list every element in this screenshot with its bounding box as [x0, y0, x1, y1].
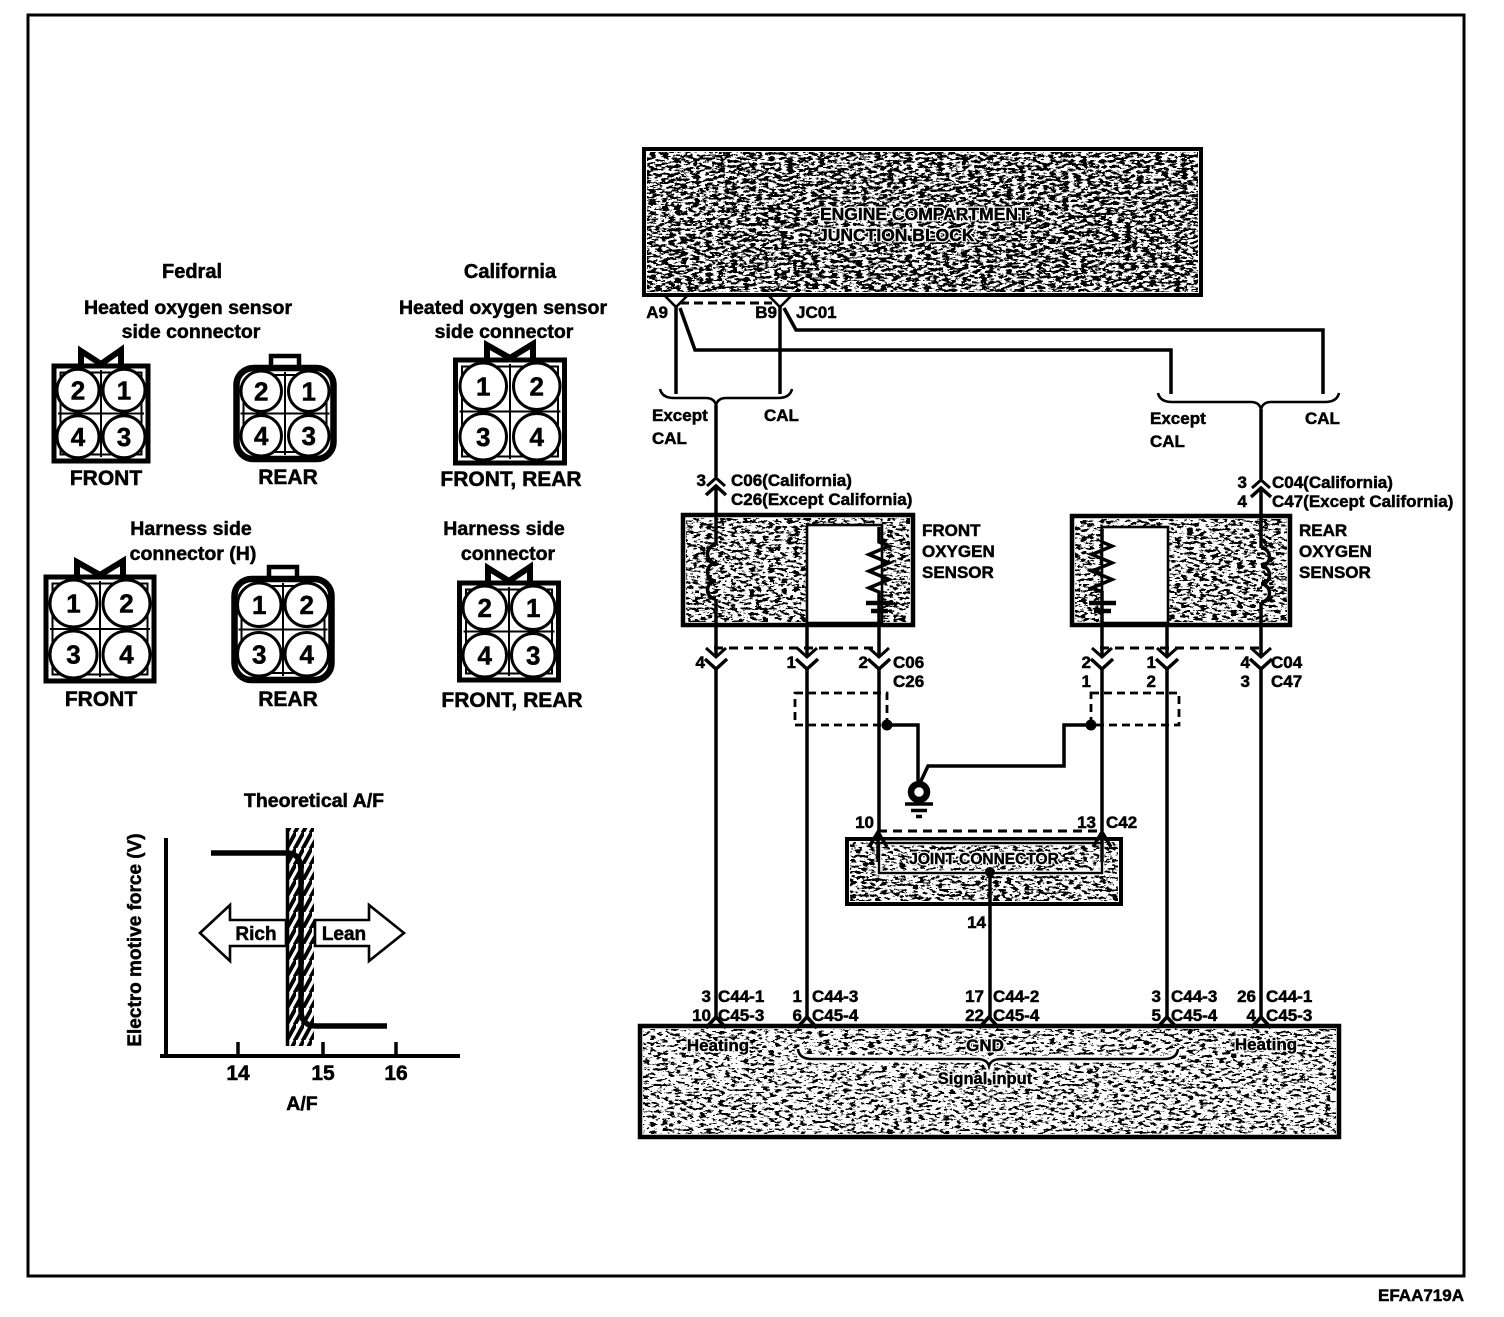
connector Fedral harness-side FRONT	[46, 561, 154, 681]
svg-text:4: 4	[478, 640, 493, 670]
svg-text:C44-1: C44-1	[718, 987, 764, 1006]
wire to front sensor pin 3	[714, 405, 718, 477]
wire A9 down	[674, 307, 678, 394]
svg-text:Theoretical A/F: Theoretical A/F	[244, 790, 384, 812]
inline connector C06/C26 pin 3	[707, 478, 725, 486]
dashed link A9-B9	[680, 302, 772, 305]
svg-text:17: 17	[965, 987, 984, 1006]
connector Fedral heated-O2-sensor-side FRONT	[54, 350, 148, 461]
svg-text:3: 3	[117, 422, 131, 452]
hatched band at stoichiometric A/F	[286, 828, 314, 1046]
graph x-axis	[160, 1054, 460, 1058]
svg-text:1: 1	[1082, 672, 1091, 691]
svg-text:3: 3	[1152, 987, 1161, 1006]
front sensing element resistor	[877, 527, 881, 538]
svg-text:C45-3: C45-3	[718, 1006, 764, 1025]
svg-text:4: 4	[300, 639, 315, 669]
terminal A9	[665, 296, 687, 307]
svg-text:3: 3	[1241, 672, 1250, 691]
rear element plates	[1089, 601, 1116, 606]
svg-text:FRONT, REAR: FRONT, REAR	[440, 468, 581, 491]
svg-text:2: 2	[119, 589, 133, 619]
svg-text:C44-1: C44-1	[1266, 987, 1312, 1006]
Lean arrow	[315, 905, 404, 961]
front oxygen sensor box	[683, 515, 913, 625]
wire front shield to ground	[887, 725, 919, 784]
svg-text:14: 14	[226, 1062, 250, 1085]
svg-text:1: 1	[117, 375, 131, 405]
svg-text:10: 10	[855, 813, 874, 832]
connector California heated-O2-sensor-side FRONT,REAR	[456, 344, 565, 463]
svg-text:3: 3	[476, 422, 490, 452]
svg-text:Heating: Heating	[1235, 1035, 1297, 1054]
rear oxygen sensor box	[1072, 516, 1290, 625]
svg-text:2: 2	[478, 593, 492, 623]
svg-text:California: California	[464, 261, 557, 283]
svg-text:OXYGEN: OXYGEN	[922, 542, 995, 561]
svg-text:1: 1	[793, 987, 802, 1006]
svg-text:CAL: CAL	[1305, 409, 1340, 428]
svg-text:C26(Except California): C26(Except California)	[731, 490, 912, 509]
joint connector box	[847, 839, 1121, 904]
rear pin 1/2	[1165, 623, 1169, 657]
svg-text:connector (H): connector (H)	[130, 543, 257, 565]
svg-text:4: 4	[1241, 653, 1251, 672]
inline connector C04/C47 pin 3/4	[1252, 480, 1270, 488]
svg-text:C47: C47	[1271, 672, 1302, 691]
merge bracket left (Except CAL / CAL)	[660, 389, 792, 405]
engine compartment junction block	[644, 149, 1201, 295]
svg-text:C45-4: C45-4	[1171, 1006, 1218, 1025]
svg-text:4: 4	[530, 422, 545, 452]
front heater coil	[714, 517, 718, 545]
svg-text:JOINT CONNECTOR: JOINT CONNECTOR	[909, 851, 1059, 868]
svg-text:4: 4	[119, 640, 134, 670]
svg-text:Fedral: Fedral	[162, 261, 222, 283]
ECU box	[640, 1026, 1339, 1137]
svg-text:side connector: side connector	[122, 321, 261, 343]
dashed connector row C42	[878, 830, 1101, 833]
svg-text:3: 3	[252, 639, 266, 669]
svg-text:C04(California): C04(California)	[1272, 473, 1393, 492]
connector Fedral heated-O2-sensor-side REAR	[237, 356, 334, 459]
rear sensing element resistor	[1100, 529, 1104, 538]
svg-text:10: 10	[692, 1006, 711, 1025]
svg-text:1: 1	[302, 376, 316, 406]
svg-text:CAL: CAL	[652, 429, 687, 448]
front sensor inner element box	[807, 525, 882, 623]
svg-text:C06: C06	[893, 653, 924, 672]
svg-text:C44-3: C44-3	[1171, 987, 1217, 1006]
svg-text:C26: C26	[893, 672, 924, 691]
svg-text:REAR: REAR	[1299, 521, 1347, 540]
front shield dashed box	[795, 693, 887, 725]
connector Fedral harness-side REAR	[235, 567, 332, 680]
ECU entry notch x=807	[797, 1017, 817, 1028]
front pin 2	[877, 625, 881, 657]
dashed connector row C04/C47	[1100, 647, 1262, 650]
ground symbol	[905, 784, 933, 817]
svg-text:side connector: side connector	[435, 321, 574, 343]
svg-text:4: 4	[71, 422, 86, 452]
svg-text:C45-4: C45-4	[993, 1006, 1040, 1025]
rear pin 2/1	[1100, 623, 1104, 657]
wire JC01 diagonal long run to CAL right	[784, 308, 1323, 394]
svg-text:Heated oxygen sensor: Heated oxygen sensor	[399, 297, 607, 319]
svg-text:13: 13	[1077, 813, 1096, 832]
front shield junction dot	[882, 720, 893, 731]
svg-text:1: 1	[476, 371, 490, 401]
rear sensor inner element box	[1102, 527, 1168, 623]
rear shield junction dot	[1086, 720, 1097, 731]
svg-text:FRONT, REAR: FRONT, REAR	[441, 689, 582, 712]
svg-text:Electro motive force (V): Electro motive force (V)	[125, 833, 146, 1046]
svg-text:CAL: CAL	[764, 406, 799, 425]
svg-text:1: 1	[1147, 653, 1156, 672]
ECU entry notch x=989	[979, 1017, 999, 1028]
svg-text:1: 1	[526, 593, 540, 623]
signal input brace	[798, 1049, 1178, 1066]
svg-text:4: 4	[1238, 492, 1248, 511]
svg-text:C44-2: C44-2	[993, 987, 1039, 1006]
svg-text:16: 16	[384, 1062, 407, 1085]
svg-text:Harness side: Harness side	[443, 518, 565, 540]
rear shield dashed box	[1091, 693, 1179, 725]
svg-text:C45-4: C45-4	[812, 1006, 859, 1025]
svg-text:4: 4	[696, 653, 706, 672]
svg-text:2: 2	[530, 371, 544, 401]
merge bracket right (Except CAL / CAL)	[1158, 393, 1339, 409]
terminal B9	[769, 296, 791, 307]
svg-text:3: 3	[66, 640, 80, 670]
rear pin 4/3	[1259, 625, 1263, 657]
svg-text:FRONT: FRONT	[65, 688, 137, 711]
joint connector pin 13 arrow	[1093, 832, 1111, 847]
svg-text:SENSOR: SENSOR	[922, 563, 994, 582]
svg-text:B9: B9	[755, 303, 777, 322]
wire A9 diagonal to rear run	[680, 308, 1171, 394]
dashed connector row C06/C26	[714, 647, 880, 650]
x tick 15	[321, 1042, 325, 1056]
svg-text:JC01: JC01	[796, 303, 837, 322]
svg-text:1: 1	[252, 590, 266, 620]
svg-text:C45-3: C45-3	[1266, 1006, 1312, 1025]
svg-text:3: 3	[302, 421, 316, 451]
svg-text:FRONT: FRONT	[922, 521, 981, 540]
svg-text:Except: Except	[1150, 409, 1206, 428]
joint connector pin 10 arrow	[869, 832, 887, 847]
joint connector pin 14 wire	[985, 867, 995, 877]
svg-text:OXYGEN: OXYGEN	[1299, 542, 1372, 561]
front pin 4	[714, 625, 718, 657]
svg-text:C47(Except California): C47(Except California)	[1272, 492, 1453, 511]
svg-text:REAR: REAR	[258, 688, 318, 711]
svg-text:ENGINE COMPARTMENT: ENGINE COMPARTMENT	[820, 204, 1029, 224]
svg-text:15: 15	[311, 1062, 335, 1085]
svg-text:connector: connector	[461, 543, 556, 565]
ECU entry notch x=1261	[1251, 1017, 1271, 1028]
svg-text:GND: GND	[966, 1036, 1004, 1055]
svg-text:5: 5	[1152, 1006, 1161, 1025]
svg-text:2: 2	[859, 653, 868, 672]
rear heater coil	[1259, 518, 1263, 548]
svg-text:4: 4	[254, 421, 269, 451]
svg-text:2: 2	[300, 590, 314, 620]
EMF curve	[211, 853, 387, 1026]
connector California harness-side FRONT,REAR	[460, 567, 559, 680]
svg-text:Lean: Lean	[322, 924, 366, 945]
wire to rear sensor pin 3/4	[1259, 409, 1263, 479]
svg-text:A/F: A/F	[286, 1093, 318, 1115]
svg-text:C04: C04	[1271, 653, 1303, 672]
svg-text:EFAA719A: EFAA719A	[1378, 1286, 1464, 1305]
wire B9 down	[778, 307, 782, 394]
Rich arrow	[200, 905, 286, 961]
x tick 16	[394, 1042, 398, 1056]
graph y-axis	[164, 838, 168, 1058]
front pin 1	[805, 623, 809, 657]
svg-text:1: 1	[787, 653, 796, 672]
svg-text:1: 1	[66, 589, 80, 619]
svg-text:3: 3	[702, 987, 711, 1006]
svg-text:Rich: Rich	[235, 924, 276, 945]
ECU entry notch x=1167	[1157, 1017, 1177, 1028]
svg-text:26: 26	[1237, 987, 1256, 1006]
svg-text:2: 2	[1147, 672, 1156, 691]
front element plates	[866, 601, 893, 606]
svg-text:2: 2	[254, 376, 268, 406]
svg-text:C44-3: C44-3	[812, 987, 858, 1006]
svg-text:2: 2	[71, 375, 85, 405]
ECU entry notch x=716	[706, 1017, 726, 1028]
svg-text:A9: A9	[646, 303, 668, 322]
svg-text:JUNCTION BLOCK: JUNCTION BLOCK	[818, 225, 975, 245]
svg-text:C06(California): C06(California)	[731, 471, 852, 490]
svg-text:CAL: CAL	[1150, 432, 1185, 451]
svg-text:Harness side: Harness side	[130, 518, 252, 540]
svg-text:REAR: REAR	[258, 466, 318, 489]
wire rear shield to ground	[920, 725, 1091, 783]
svg-text:Heating: Heating	[687, 1036, 749, 1055]
svg-text:Except: Except	[652, 406, 708, 425]
svg-text:C42: C42	[1106, 813, 1137, 832]
svg-text:Heated oxygen sensor: Heated oxygen sensor	[84, 297, 292, 319]
svg-text:Signal input: Signal input	[938, 1070, 1033, 1088]
svg-text:3: 3	[697, 471, 706, 490]
x tick 14	[236, 1042, 240, 1056]
svg-text:SENSOR: SENSOR	[1299, 563, 1371, 582]
svg-text:3: 3	[1238, 473, 1247, 492]
svg-text:2: 2	[1082, 653, 1091, 672]
svg-text:14: 14	[967, 913, 986, 932]
svg-text:22: 22	[965, 1006, 984, 1025]
svg-text:FRONT: FRONT	[70, 467, 142, 490]
svg-text:3: 3	[526, 640, 540, 670]
